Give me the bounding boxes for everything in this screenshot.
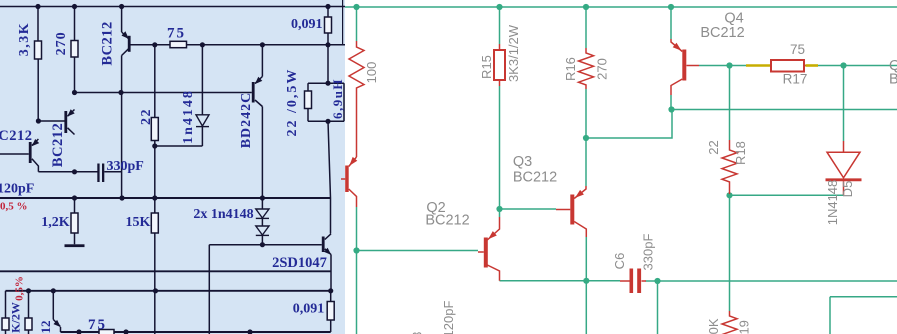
- wire zobel top y83.2: [308, 82, 344, 84]
- wire column D 22/15K: [154, 45, 156, 118]
- transistor bottom cut: [53, 320, 61, 328]
- wire Q2 emitter link: [499, 209, 501, 217]
- junction dot R17 right: [840, 62, 846, 68]
- wire y109.5 rail: [672, 109, 897, 111]
- junction dot R16/Q3 emitter: [583, 135, 589, 141]
- transistor Q2: [478, 217, 500, 281]
- resistor 0,091 top: [325, 17, 332, 33]
- junction dot Q4 collector: [668, 106, 674, 112]
- wire R17 right to edge: [818, 65, 897, 67]
- svg-text:75: 75: [167, 26, 186, 42]
- inductor 6,9uH branch: [343, 83, 345, 121]
- wire mid rail y198: [0, 197, 331, 199]
- junction dots rail y291: [26, 288, 31, 293]
- transistor BC212 mid (bar left): [64, 109, 74, 134]
- resistor 75 top: [170, 41, 187, 47]
- wire bottom right corner: [830, 297, 897, 334]
- svg-text:22: 22: [139, 108, 154, 125]
- transistor Q1 at edge: [341, 157, 357, 207]
- transistor BC212 left (bar left): [29, 139, 39, 172]
- svg-text:K/2W: K/2W: [9, 302, 23, 333]
- wire base of left BC212 y154: [0, 153, 29, 155]
- wire R15 to Q3 base row: [500, 208, 557, 210]
- svg-text:R16: R16: [563, 57, 578, 81]
- svg-text:1,2K: 1,2K: [41, 215, 70, 230]
- svg-text:22 /0,5W: 22 /0,5W: [285, 68, 300, 137]
- svg-text:0,091: 0,091: [291, 17, 323, 32]
- junction dot top rail x499: [496, 4, 502, 10]
- diode 1n4148: [196, 115, 209, 127]
- svg-text:120pF: 120pF: [0, 181, 34, 196]
- wire R18 column: [729, 66, 731, 141]
- svg-text:BC212: BC212: [100, 21, 116, 65]
- resistor R17 box: [771, 60, 804, 72]
- wire R18 to D5 row: [730, 194, 844, 196]
- resistor 75 bottom: [99, 330, 114, 334]
- wire column BD242C: [261, 45, 263, 77]
- wire R16 column: [585, 7, 587, 48]
- wire cap right lead: [104, 171, 121, 173]
- junction dot diode link: [152, 143, 157, 148]
- wire Q2 collector row: [500, 280, 621, 282]
- wire Q4 collector: [670, 95, 672, 110]
- ground 1,2K: [65, 244, 85, 247]
- resistor 0,091 bottom: [327, 302, 334, 321]
- wire down from C6 right junction: [657, 281, 659, 334]
- svg-text:D5: D5: [840, 181, 855, 198]
- wire bottom resistor2 column: [28, 291, 30, 318]
- capacitor C6: [620, 280, 646, 282]
- wire column C column: [121, 7, 123, 33]
- wire rail y332: [61, 331, 331, 333]
- resistor R15 box: [494, 50, 505, 80]
- wire Q3 emitter link: [585, 138, 587, 186]
- wire zobel bottom y121.3: [308, 120, 344, 122]
- svg-text:2SD1047: 2SD1047: [272, 255, 327, 271]
- junction dot Q4 base: [726, 62, 732, 68]
- wire C6 row right: [646, 280, 897, 282]
- svg-text:Q3: Q3: [513, 154, 532, 170]
- wire column 3,3K: [37, 7, 39, 42]
- svg-text:75: 75: [88, 317, 107, 333]
- junction dot diodes bottom: [260, 242, 265, 247]
- junction dot top rail x356: [353, 4, 359, 10]
- junction dot C6 left: [583, 278, 589, 284]
- wire rail y291: [6, 290, 331, 292]
- diode D5: [827, 141, 860, 195]
- resistor bottom-left 1: [2, 318, 9, 330]
- svg-text:BC212: BC212: [700, 25, 744, 41]
- wire 0,091 bottom column: [330, 291, 332, 302]
- junction dots mid rail: [72, 195, 77, 200]
- svg-text:1N4148: 1N4148: [825, 180, 840, 226]
- svg-text:3,3K: 3,3K: [17, 22, 32, 56]
- wire diode link y146: [155, 145, 203, 147]
- wire Q3 collector link: [585, 237, 587, 281]
- junction dots 75 row: [152, 42, 157, 47]
- highlighted wire right of R17: [806, 64, 819, 67]
- transistor BC212 top (bar right): [122, 31, 131, 55]
- junction dots zobel: [325, 81, 330, 86]
- wire down from Q2 base junction: [356, 251, 358, 334]
- svg-text:0,091: 0,091: [293, 302, 325, 317]
- wire zobel left branch: [307, 83, 309, 91]
- transistor Q3: [556, 186, 586, 237]
- wire main output column: [328, 121, 331, 233]
- wire down from C6 left junction: [585, 281, 587, 334]
- svg-text:BD: BD: [889, 72, 897, 88]
- wire 2x1n4148 row y244.7: [209, 244, 321, 246]
- wire bottom-left corner column: [5, 291, 7, 318]
- svg-text:R18: R18: [733, 141, 748, 165]
- svg-text:BD242C: BD242C: [239, 92, 254, 149]
- svg-text:270: 270: [595, 58, 610, 80]
- resistor 270: [71, 41, 78, 58]
- diodes 2x 1n4148: [256, 209, 269, 235]
- junction dots cap row: [72, 169, 77, 174]
- resistor 3,3K: [35, 41, 42, 59]
- svg-text:BC212: BC212: [50, 123, 66, 167]
- junction dot R18 bottom: [726, 192, 732, 198]
- resistor 15K: [151, 213, 158, 233]
- resistor bottom-left 2: [25, 318, 32, 330]
- wire D5 column: [843, 66, 845, 142]
- junction dot top rail x586: [583, 4, 589, 10]
- wire column 270: [74, 7, 76, 41]
- resistor R15 leads: [499, 44, 501, 86]
- wire top rail: [0, 6, 345, 8]
- svg-text:12: 12: [38, 321, 53, 334]
- wire Q2 base row: [357, 250, 479, 252]
- junction dot Q2 base: [353, 247, 359, 253]
- wire column 0,091 top: [327, 7, 329, 18]
- svg-text:270: 270: [54, 31, 69, 55]
- junction dot R15/Q3 base: [496, 206, 502, 212]
- svg-text:1n4148: 1n4148: [181, 89, 196, 144]
- svg-text:120pF: 120pF: [441, 301, 456, 334]
- wire top rail right: [345, 6, 897, 8]
- scanned blue schematic background: [0, 0, 345, 334]
- resistor 22: [151, 118, 158, 141]
- wire base row y92.5: [75, 92, 252, 94]
- resistor R18 zigzag: [722, 140, 737, 194]
- svg-text:10K: 10K: [706, 318, 721, 334]
- svg-text:BC212: BC212: [513, 170, 557, 186]
- svg-text:C6: C6: [612, 253, 627, 270]
- svg-text:330pF: 330pF: [641, 234, 656, 271]
- svg-text:2x 1n4148: 2x 1n4148: [193, 207, 253, 222]
- resistor R1 100 zigzag: [349, 41, 364, 157]
- wire Q4 base to R17: [699, 65, 746, 67]
- resistor R17 leads: [770, 65, 806, 67]
- resistor 1,2K: [71, 213, 78, 233]
- wire rail y271: [0, 270, 331, 272]
- wire column from diode junction: [208, 245, 210, 334]
- svg-text:R19: R19: [737, 320, 752, 334]
- wire 75-row y44.8: [130, 44, 345, 46]
- junction dot emitter row: [36, 118, 41, 123]
- svg-text:330pF: 330pF: [107, 159, 144, 174]
- transistor BD242C: [252, 77, 263, 107]
- wire Q1 column: [356, 7, 358, 41]
- transistor 2SD1047: [322, 234, 332, 255]
- svg-text:22: 22: [706, 140, 721, 154]
- resistor R19 zigzag cut: [722, 311, 737, 334]
- capacitor 330pF: [97, 164, 104, 183]
- svg-text:6,9uH: 6,9uH: [330, 78, 345, 119]
- svg-text:R17: R17: [783, 72, 808, 87]
- wire cap row y171.8: [38, 171, 97, 173]
- svg-text:0,5%: 0,5%: [14, 276, 26, 301]
- wire base row y121: [38, 120, 64, 122]
- wire R16 row to Q4 collector: [586, 110, 672, 139]
- wire 1,2K column: [74, 198, 76, 213]
- junction dots rail y332: [76, 329, 81, 334]
- wire bottom transistor column: [52, 291, 54, 320]
- resistor R16 zigzag: [579, 48, 594, 89]
- svg-text:15K: 15K: [126, 215, 151, 230]
- wire R19 column: [729, 195, 731, 311]
- junction dot C6 right: [654, 278, 660, 284]
- junction dots base row: [72, 90, 77, 95]
- svg-text:75: 75: [790, 42, 805, 57]
- junction dot top rail x671: [668, 4, 674, 10]
- scan border edge: [342, 0, 344, 45]
- wire R15 column: [499, 7, 501, 44]
- wire 2SD1047 emitter column: [330, 255, 332, 292]
- svg-text:3K3/1/2W: 3K3/1/2W: [506, 24, 521, 82]
- svg-text:BC212: BC212: [425, 213, 469, 229]
- wire column 1n4148: [201, 45, 203, 115]
- svg-text:100: 100: [364, 62, 379, 84]
- junction dots top rail: [35, 4, 40, 9]
- svg-text:R15: R15: [479, 55, 494, 79]
- highlighted wire left of R17: [746, 64, 770, 67]
- svg-text:BC212: BC212: [0, 128, 33, 144]
- resistor 22/0,5W: [305, 91, 312, 109]
- transistor Q4: [671, 39, 699, 95]
- svg-text:0,5 %: 0,5 %: [0, 201, 28, 213]
- wire Q4 emitter: [670, 7, 672, 39]
